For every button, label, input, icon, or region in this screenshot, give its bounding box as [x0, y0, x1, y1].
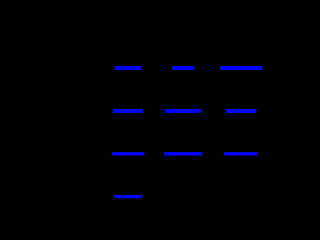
errorbar dash row2 col2 — [165, 109, 201, 112]
errorbar dash row2 col1 — [113, 109, 143, 112]
errorbar dash row1 col3 — [220, 66, 262, 70]
errorbar dash row3 col3 — [224, 152, 257, 155]
errorbar dash row2 col3 — [226, 109, 256, 112]
errorbar dash row1 col1 — [115, 66, 141, 70]
errorbar dash row3 col2 — [164, 152, 202, 155]
errorbar dash row1 col2 — [172, 66, 194, 70]
errorbar dash row3 col1 — [112, 152, 144, 155]
errorbar dash row4 col1 — [114, 195, 142, 198]
